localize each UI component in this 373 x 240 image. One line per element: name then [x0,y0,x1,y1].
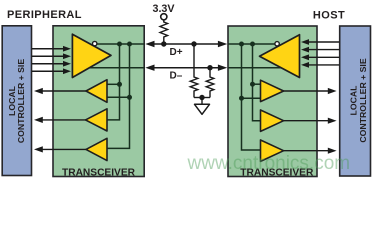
wire: receiver D input stub 1 [253,83,261,85]
node: pull-down common junction [199,95,204,100]
node: host junction on D+ at x=241.5 [239,42,244,47]
node: junction on D+ at x=119.5 [117,42,122,47]
svg-text:CONTROLLER + SIE: CONTROLLER + SIE [358,58,368,142]
node: D+ pull-up junction [161,41,166,46]
wire: D- bus [145,65,227,71]
receiver B (peripheral single-ended receiver D+) [86,109,108,131]
wire: host internal D+ (block edge to bubble) [228,43,277,45]
wire: peripheral internal D+ (bubble to block edge) [95,43,145,45]
block: peripheral LOCAL CONTROLLER + SIE [2,26,31,176]
node: junction on D+ at x=129.5 [127,42,132,47]
bubble on U1 output enable [93,41,97,45]
node: host junction receiver D input 2 [239,96,244,101]
driver U1 (peripheral output buffer) [72,34,111,77]
svg-text:D–: D– [170,71,183,82]
wire: peripheral bus vertical 2 to receiver C input [107,44,130,148]
receiver A (peripheral differential receiver) [86,80,107,103]
driver U2 (host output buffer) [260,35,300,78]
resistor R3 pull-down on D- [206,68,214,98]
wire: peripheral internal D- [90,67,145,69]
node: junction receiver A input 1 [117,82,122,87]
wire: receiver A input stub 1 [107,83,120,85]
wire: peripheral bus vertical 1 to receiver B input [107,44,120,120]
ground [195,98,210,115]
svg-text:D+: D+ [170,47,183,58]
wire: receiver C output to controller [34,146,86,152]
wire: host bus vertical 1 to receiver E input [253,44,261,121]
terminal: 3.3V supply circle [161,14,167,20]
wire: host driver input 2 [301,47,340,53]
wire: peripheral driver input 3 [32,61,71,67]
node: junction receiver A input 2 [127,95,132,100]
svg-text:TRANSCEIVER: TRANSCEIVER [62,167,136,178]
wire: receiver E output to host controller [284,118,337,124]
wire: receiver A output to controller [34,88,86,94]
bubble on U2 output enable [275,42,279,46]
wire: receiver B output to controller [34,117,86,123]
wire: host internal D- [228,67,281,69]
block: peripheral TRANSCEIVER [53,26,144,179]
wire: host driver input 3 [301,54,340,60]
node: D- pull-down junction [207,65,212,70]
svg-text:HOST: HOST [313,10,345,22]
receiver C (peripheral single-ended receiver D-) [86,138,107,160]
wire: peripheral driver input 4 [32,68,71,74]
resistor R1 pull-up 3.3V to D+ [160,20,168,44]
wire: host driver input 1 [301,39,340,45]
receiver F (host single-ended receiver D-) [261,140,284,161]
block: host LOCAL CONTROLLER + SIE [340,26,371,176]
wire: receiver D input stub 2 [242,97,261,99]
wire: D+ bus [145,41,227,47]
wire: peripheral driver input 2 [32,53,71,59]
receiver E (host single-ended receiver D+) [261,110,284,131]
wire: receiver F output to host controller [284,148,337,154]
node: host junction on D+ at x=252.5 [250,42,255,47]
block: host TRANSCEIVER [228,26,317,178]
resistor R2 pull-down on D+ [190,44,198,98]
svg-text:CONTROLLER + SIE: CONTROLLER + SIE [16,59,26,143]
wire: host bus vertical 2 to receiver F input [242,44,261,150]
wire: pull-down common [194,97,210,99]
receiver D (host differential receiver) [261,80,284,101]
wire: peripheral driver input 1 [32,46,71,52]
wire: host driver input 4 [301,62,340,68]
svg-text:PERIPHERAL: PERIPHERAL [7,9,82,21]
wire: receiver D output to host controller [284,88,337,94]
wire: receiver A input stub 2 [107,96,130,98]
node: host junction receiver D input 1 [250,82,255,87]
svg-text:www.cntronics.com: www.cntronics.com [187,153,351,174]
node: D+ pull-down junction [191,41,196,46]
